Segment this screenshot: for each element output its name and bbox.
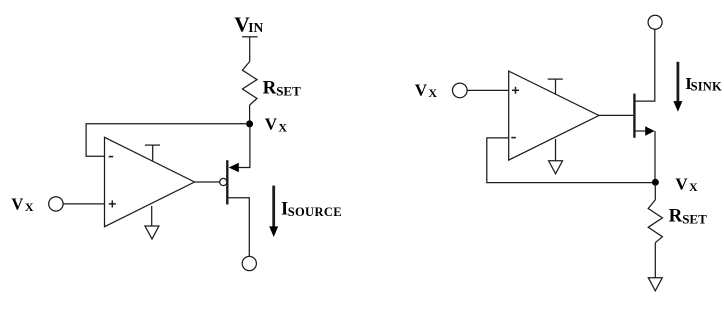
power supply tap U1 [145, 145, 160, 161]
wire op-amp output to gate bubble [195, 181, 220, 183]
wire Q1 source lead to node VX [239, 126, 250, 168]
power VIN terminal bar [242, 36, 258, 38]
node VX left (junction dot) [246, 120, 253, 127]
svg-text:R: R [263, 78, 277, 99]
wire resistor to ground right [654, 243, 656, 278]
label VIN [234, 13, 263, 37]
svg-text:SINK: SINK [691, 79, 722, 93]
wire op-amp output to gate [599, 114, 633, 116]
svg-text:X: X [278, 120, 287, 134]
transistor Q2 source arrow [645, 126, 654, 135]
label VX node right [675, 174, 698, 194]
ground right [648, 278, 662, 291]
svg-text:V: V [415, 80, 428, 99]
wire feedback left (node to inverting input) [86, 124, 250, 157]
wire Q2 drain lead to top terminal [636, 29, 655, 101]
wire Q1 drain lead [229, 198, 250, 256]
terminal ISOURCE output [242, 256, 256, 270]
terminal VX input right [453, 83, 468, 98]
wire Q2 source lead to node VX right [636, 131, 656, 183]
svg-text:X: X [689, 180, 698, 194]
ground U2 [549, 139, 563, 174]
node VX right (junction dot) [652, 179, 659, 186]
terminal ISINK top [648, 15, 662, 29]
op-amp U1 minus sign [109, 156, 114, 158]
op-amp U2 plus sign [512, 87, 519, 94]
wire input terminal to plus input [63, 203, 104, 205]
label ISOURCE [281, 200, 342, 220]
transistor Q1 PMOS gate bubble [220, 178, 227, 185]
svg-text:X: X [428, 86, 437, 100]
transistor Q2 NMOS body bar [633, 94, 635, 138]
svg-text:X: X [25, 200, 34, 214]
resistor R_SET right [648, 200, 662, 243]
resistor R_SET left [242, 62, 257, 106]
wire VIN bar to resistor [249, 37, 251, 62]
arrow ISOURCE [269, 186, 278, 237]
ground U1 [145, 206, 159, 239]
label RSET left [263, 78, 302, 99]
transistor Q1 PMOS body bar [226, 160, 228, 204]
svg-text:SOURCE: SOURCE [288, 205, 342, 219]
arrow ISINK [673, 62, 682, 112]
svg-text:IN: IN [248, 20, 263, 35]
wire feedback right (inverting input to node) [487, 138, 656, 183]
op-amp U1 triangle [105, 137, 195, 226]
wire input terminal to plus input right [467, 89, 509, 91]
op-amp U2 minus sign [511, 137, 516, 139]
svg-text:V: V [265, 114, 278, 133]
svg-text:V: V [675, 174, 688, 193]
transistor Q1 source arrow [229, 163, 239, 172]
svg-text:V: V [11, 194, 23, 213]
label VX node left [265, 114, 288, 134]
svg-text:R: R [669, 206, 683, 227]
label VX input left [11, 194, 34, 214]
label ISINK [685, 74, 722, 94]
wire node to resistor right [654, 184, 656, 200]
svg-text:SET: SET [276, 84, 301, 99]
op-amp U1 plus sign [109, 200, 116, 207]
label RSET right [669, 206, 708, 227]
op-amp U2 triangle [509, 71, 599, 160]
wire resistor to node VX left [249, 105, 251, 124]
svg-text:SET: SET [682, 212, 707, 227]
power supply tap U2 [548, 79, 563, 95]
terminal VX input left [49, 197, 63, 211]
label VX input right [415, 80, 438, 100]
